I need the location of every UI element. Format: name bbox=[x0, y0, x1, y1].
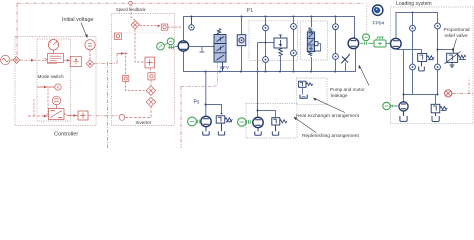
summing diamond output bbox=[86, 60, 94, 68]
check valve column B bbox=[263, 17, 269, 72]
replenishing box bbox=[246, 104, 297, 139]
signal arrow into controller bbox=[20, 59, 44, 61]
gauge block bbox=[48, 40, 59, 54]
inverter sensor square S1 bbox=[115, 33, 122, 40]
replenishing relief valve 2 bbox=[257, 110, 288, 136]
svg-text:Pump and motor: Pump and motor bbox=[330, 87, 365, 92]
loading speed sensor bbox=[360, 34, 369, 45]
inverter diamond D3 bbox=[131, 21, 139, 29]
right check valve chain bbox=[435, 23, 441, 95]
loading circuit top rail bbox=[396, 13, 438, 39]
relief valve RV1 bbox=[274, 35, 287, 72]
boost motor green bbox=[383, 102, 398, 109]
Ps sensing dash line bbox=[181, 62, 218, 86]
charge motor 2 bbox=[238, 118, 251, 126]
loading motor bbox=[348, 38, 359, 49]
svg-text:Initial voltage: Initial voltage bbox=[62, 17, 93, 23]
leader heat exchanger bbox=[314, 98, 345, 112]
node circle on feedback line bbox=[129, 1, 133, 5]
PFV outlet arrow bbox=[222, 62, 224, 71]
leader pump and motor leakage bbox=[360, 66, 370, 86]
inverter vertical chain line bbox=[125, 52, 127, 75]
speed sensor dotted drop line bbox=[366, 3, 368, 33]
hydraulic motor-pump unit bbox=[178, 41, 188, 51]
svg-text:Heat exchanger arrangement: Heat exchanger arrangement bbox=[296, 113, 360, 119]
inverter chain vertical bbox=[135, 29, 145, 62]
directional valve bbox=[307, 17, 320, 72]
throttle valve X bbox=[341, 54, 350, 72]
pressure gauge on rail bbox=[189, 17, 194, 31]
main pressure rail P1 bbox=[184, 17, 355, 41]
drive sensors green group bbox=[157, 38, 178, 50]
heat exchanger tank bbox=[300, 95, 307, 99]
leader initial voltage bbox=[81, 23, 87, 38]
svg-text:P1: P1 bbox=[247, 8, 253, 14]
mode position 2 circle bbox=[52, 96, 61, 108]
return rail bbox=[184, 49, 356, 72]
integrator block bbox=[45, 54, 64, 64]
loading lower branch bbox=[404, 94, 438, 96]
relay block bbox=[47, 109, 67, 120]
branch to small relief bbox=[404, 50, 422, 54]
svg-text:Mode switch: Mode switch bbox=[38, 74, 64, 79]
feedback vertical left bbox=[16, 3, 18, 56]
loading pump bottom line bbox=[397, 49, 404, 102]
leader proportional relief valve bbox=[453, 39, 457, 51]
initial voltage source circle bbox=[85, 40, 95, 60]
Ps line vertical bbox=[205, 72, 207, 117]
inverter diamond D4 bbox=[146, 86, 156, 96]
loading system box bbox=[391, 7, 474, 124]
valve group box 1 bbox=[249, 21, 298, 61]
svg-text:PFV: PFV bbox=[220, 65, 230, 70]
inverter box bbox=[112, 14, 175, 126]
svg-text:leakage: leakage bbox=[331, 93, 348, 98]
inverter input arrow bbox=[117, 53, 128, 55]
node drop from top line bbox=[131, 5, 135, 21]
summing diamond input bbox=[13, 57, 20, 64]
svg-text:Loading system: Loading system bbox=[396, 1, 432, 7]
svg-text:Inverter: Inverter bbox=[136, 120, 152, 125]
Ps branch to replenishing valve bbox=[206, 105, 222, 114]
divide block bbox=[70, 57, 82, 67]
loading relief valve 2 bbox=[431, 104, 447, 121]
controller box bbox=[15, 37, 96, 126]
PFV proportional valve bbox=[214, 28, 226, 62]
inverter sensor square S2 bbox=[123, 76, 146, 91]
sine command source bbox=[1, 55, 13, 64]
small relief valve loading bbox=[418, 53, 435, 71]
svg-text:Ps: Ps bbox=[194, 100, 200, 106]
heat exchanger valve bbox=[299, 81, 313, 94]
mode switch inner box bbox=[37, 39, 71, 121]
arrow to divide block bbox=[64, 59, 70, 61]
loading pump bbox=[391, 38, 402, 49]
inverter sensor square S3 bbox=[140, 24, 182, 30]
signal vertical to bottom edge bbox=[107, 62, 109, 148]
svg-text:Replenishing arrangement: Replenishing arrangement bbox=[302, 133, 359, 139]
svg-text:FP04: FP04 bbox=[373, 20, 385, 26]
feedback dash-dot top line left bbox=[17, 2, 128, 4]
saturation block bbox=[78, 111, 88, 120]
inverter sensor square S4 bbox=[148, 73, 155, 80]
replenishing relief valve 1 bbox=[216, 116, 232, 135]
boost pump bbox=[399, 102, 408, 111]
pipe motor to PFV bbox=[189, 47, 214, 53]
charge pump 1 bbox=[201, 116, 211, 126]
loading check valve chain bbox=[410, 13, 416, 95]
filter valve on drop line bbox=[237, 17, 246, 72]
FP04 logo bbox=[373, 5, 383, 15]
tank under pump 1 bbox=[203, 127, 209, 135]
charge pump 2 bbox=[253, 117, 263, 127]
leader replenishing bbox=[295, 118, 316, 133]
heat exchanger box bbox=[296, 78, 327, 104]
torque sensor box bbox=[368, 37, 390, 47]
svg-text:relief valve: relief valve bbox=[445, 33, 468, 39]
controller output dash line bbox=[94, 54, 117, 64]
junction dots top rail bbox=[191, 16, 337, 18]
charge pump feed line bbox=[258, 43, 275, 118]
torque command source red bbox=[445, 90, 452, 97]
check valve column F bbox=[333, 17, 339, 72]
controller second output dash line bbox=[89, 115, 120, 117]
feedback into relay bbox=[28, 115, 50, 117]
inverter sum block bbox=[145, 57, 155, 68]
signal vertical x182 to bottom bbox=[180, 86, 182, 148]
charge motor 1 bbox=[188, 117, 201, 126]
feedback dash-dot top line right bbox=[133, 2, 365, 4]
tank under boost pump bbox=[400, 111, 407, 121]
inverter inner dotted divider bbox=[114, 32, 174, 34]
svg-text:Controller: Controller bbox=[54, 132, 78, 138]
proportional relief valve feed bbox=[438, 50, 454, 54]
red signal to torque source bbox=[452, 78, 474, 93]
valve group box 2 bbox=[301, 21, 328, 60]
check valve column D bbox=[291, 17, 297, 72]
svg-text:Speed feedback: Speed feedback bbox=[116, 7, 147, 12]
mode position 1 circle bbox=[55, 84, 61, 90]
svg-text:Proportional: Proportional bbox=[444, 27, 470, 33]
junction dots return rail bbox=[205, 71, 337, 73]
tank under pump 2 bbox=[255, 128, 261, 135]
proportional relief valve bbox=[445, 52, 467, 68]
node circle on second output bbox=[119, 115, 125, 121]
mode switch line and arrow bbox=[37, 86, 55, 88]
inverter diamond D5 bbox=[146, 97, 156, 107]
